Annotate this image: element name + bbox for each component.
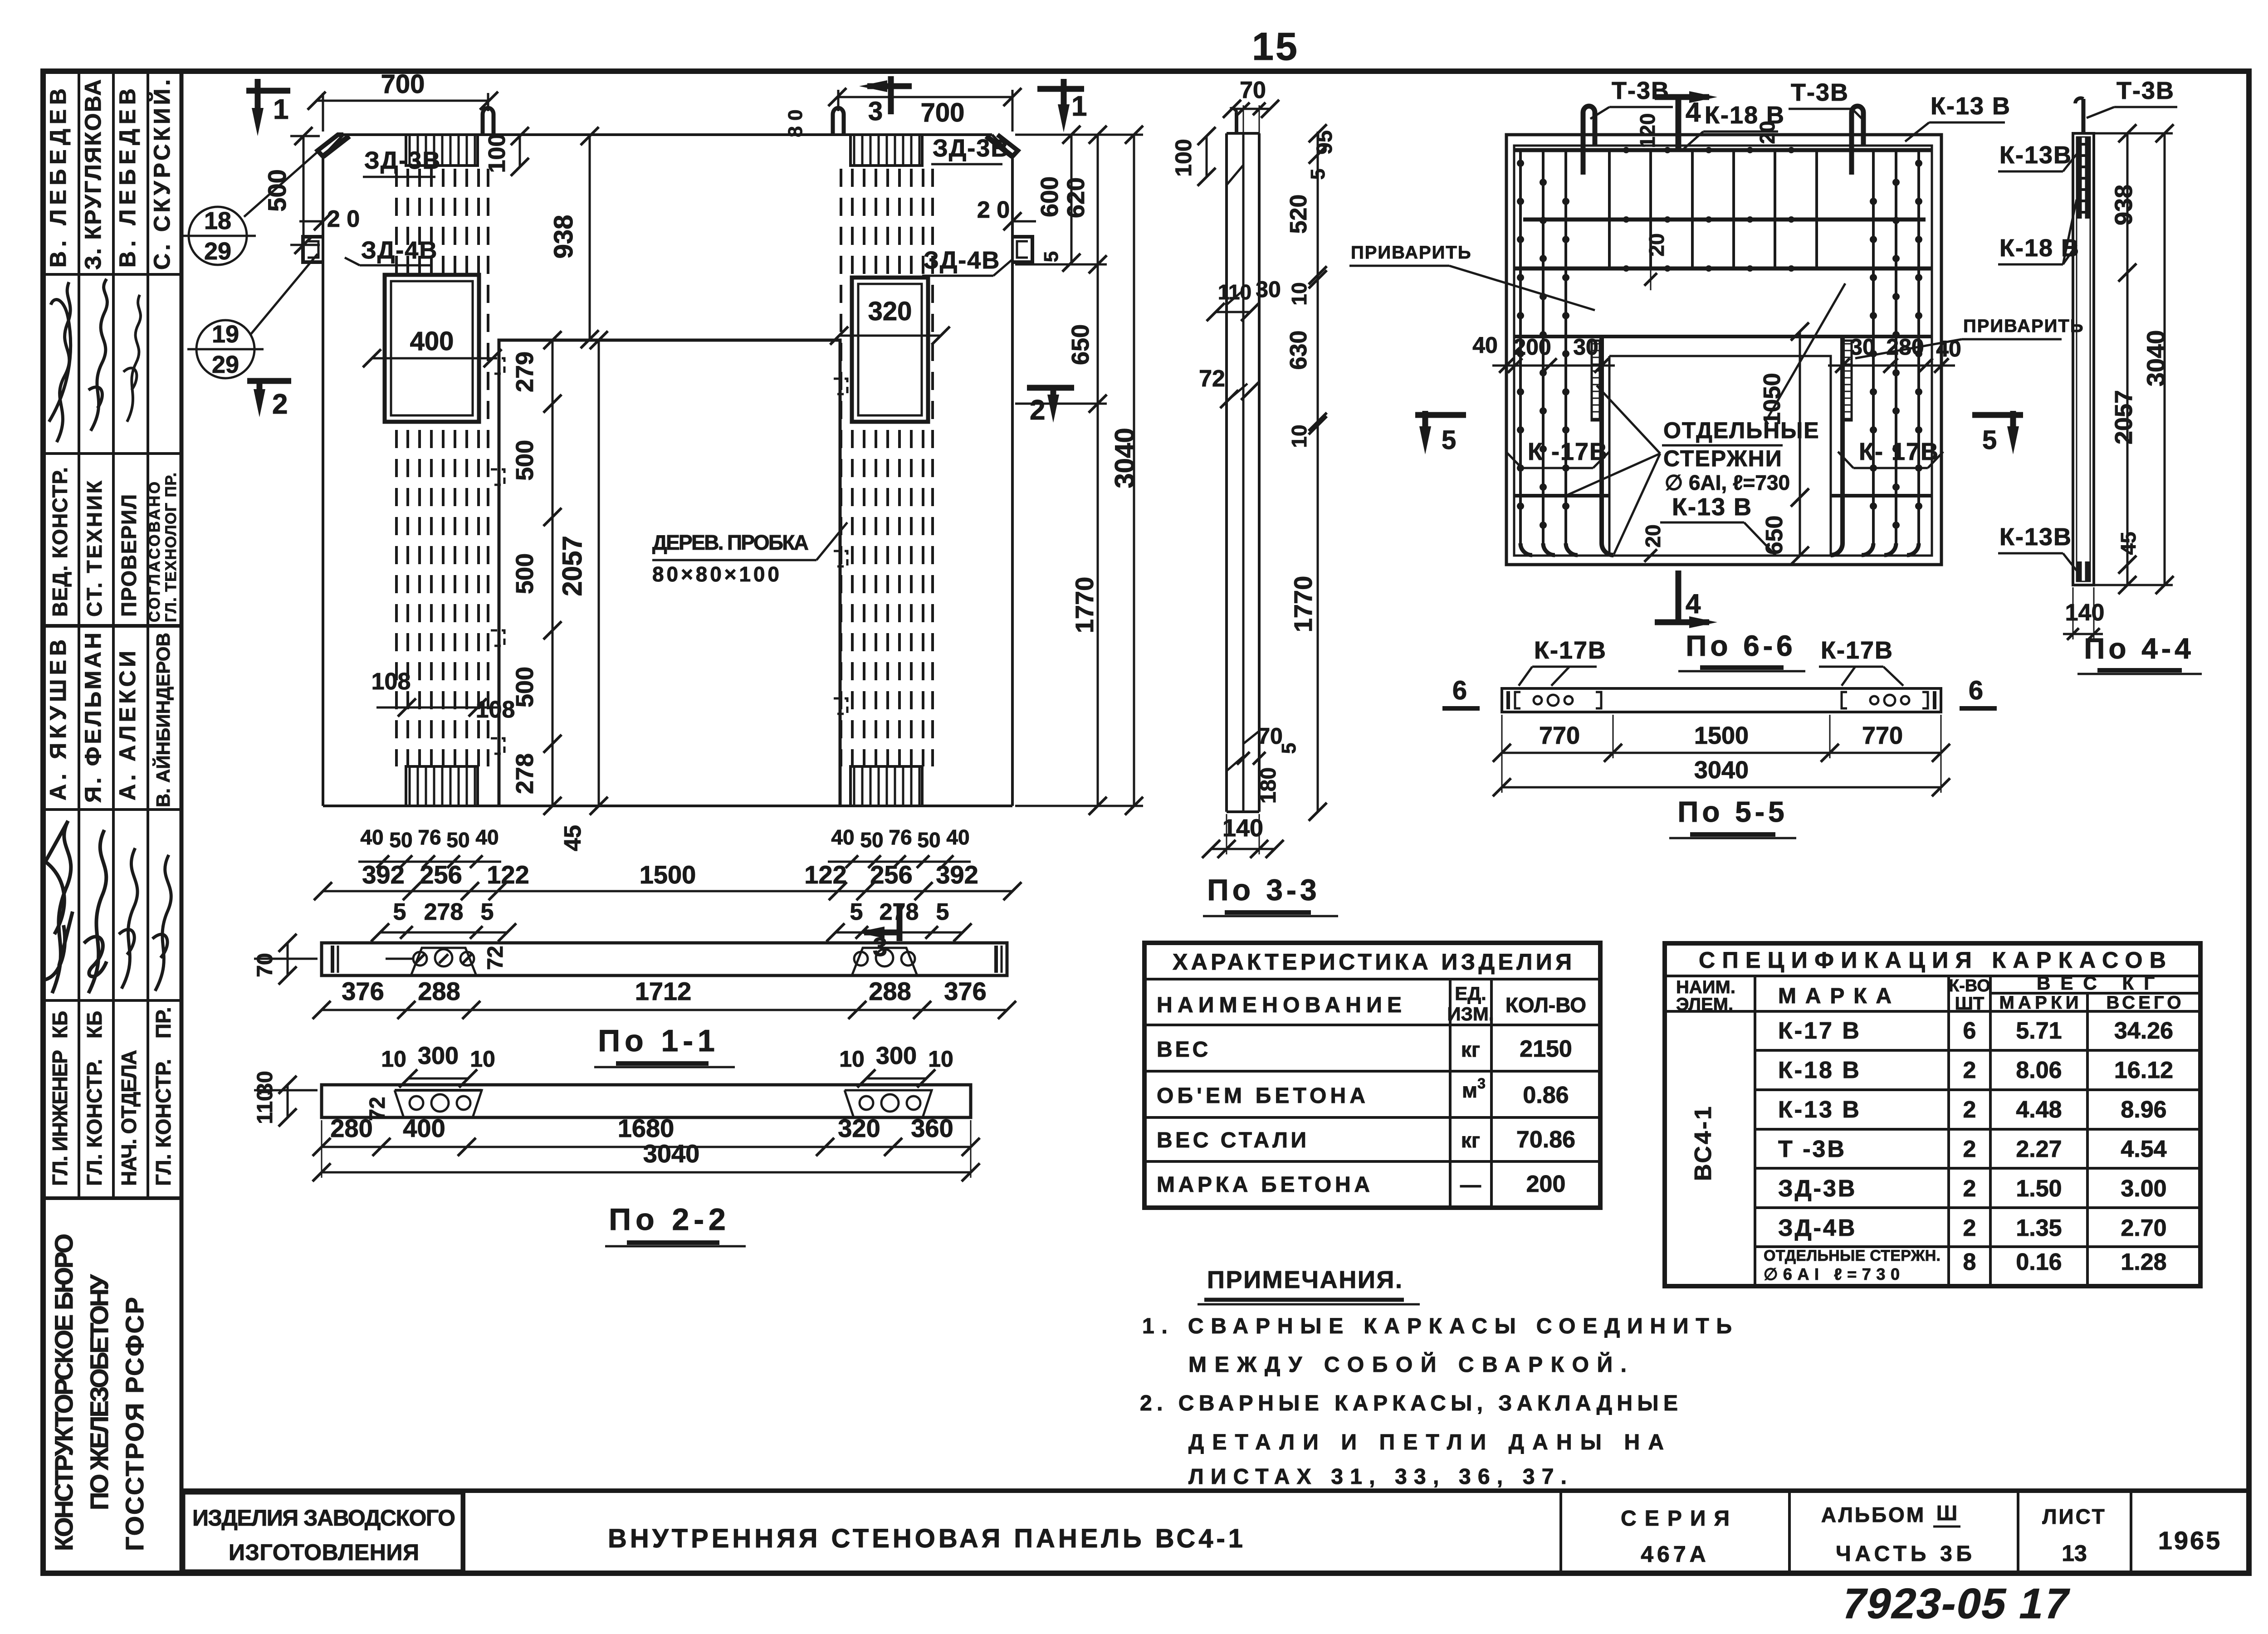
signature scribble 3 <box>123 295 141 422</box>
svg-text:10: 10 <box>381 1046 406 1072</box>
svg-text:29: 29 <box>204 238 231 265</box>
dim chain 620 650 1770 <box>1089 126 1107 815</box>
svg-text:ПО ЖЕЛЕЗОБЕТОНУ: ПО ЖЕЛЕЗОБЕТОНУ <box>85 1274 113 1510</box>
svg-text:18: 18 <box>204 207 231 234</box>
svg-text:180: 180 <box>1256 767 1281 804</box>
title block grid <box>43 71 181 1573</box>
svg-text:—: — <box>1460 1173 1481 1196</box>
embedded detail ZD-4V right edge <box>1012 237 1032 262</box>
svg-text:72: 72 <box>484 946 508 970</box>
svg-text:8.96: 8.96 <box>2121 1097 2166 1123</box>
svg-text:Т-3В: Т-3В <box>1791 79 1849 106</box>
svg-text:ЗД-3В: ЗД-3В <box>364 147 441 174</box>
svg-text:30: 30 <box>253 1071 277 1095</box>
svg-text:По 3-3: По 3-3 <box>1207 873 1320 907</box>
section mark 3 bottom <box>897 905 903 941</box>
section 1-1 right insert with holes <box>852 948 917 976</box>
svg-text:2: 2 <box>1963 1057 1976 1083</box>
section 3-3 right dim chain <box>1309 124 1327 821</box>
weld strip right <box>1843 341 1852 420</box>
svg-text:К- 17В: К- 17В <box>1859 438 1939 465</box>
svg-text:700: 700 <box>921 98 965 127</box>
svg-text:2 0: 2 0 <box>327 206 360 232</box>
left pilaster top comb <box>406 135 478 166</box>
svg-text:В. ЛЕБЕДЕВ: В. ЛЕБЕДЕВ <box>115 88 140 268</box>
svg-text:ЗД-4В: ЗД-4В <box>1778 1215 1857 1241</box>
svg-text:770: 770 <box>1539 722 1580 749</box>
svg-text:2.70: 2.70 <box>2121 1215 2166 1241</box>
svg-text:256: 256 <box>870 860 912 889</box>
svg-text:КБ: КБ <box>48 1011 72 1039</box>
svg-text:3040: 3040 <box>2141 330 2170 387</box>
svg-text:1.28: 1.28 <box>2121 1249 2166 1275</box>
svg-text:0.86: 0.86 <box>1523 1082 1569 1108</box>
svg-text:50: 50 <box>446 828 469 852</box>
svg-text:392: 392 <box>362 860 404 889</box>
svg-text:ПР.: ПР. <box>152 1007 175 1039</box>
panel elevation outline <box>323 135 1012 806</box>
svg-text:По 4-4: По 4-4 <box>2084 632 2194 665</box>
dim chain 938 2057 45 <box>2118 124 2136 594</box>
svg-text:По 6-6: По 6-6 <box>1686 629 1796 662</box>
svg-text:кг: кг <box>1461 1038 1480 1061</box>
svg-text:МЕЖДУ СОБОЙ СВАРКОЙ.: МЕЖДУ СОБОЙ СВАРКОЙ. <box>1188 1352 1627 1377</box>
svg-text:ЗД-3В: ЗД-3В <box>1778 1176 1857 1202</box>
svg-text:ГЛ. КОНСТР.: ГЛ. КОНСТР. <box>152 1059 175 1186</box>
right opening 320 <box>852 278 928 422</box>
section mark 4 bottom <box>1676 571 1681 623</box>
otdelnye sterzhni leaders <box>1597 385 1660 454</box>
svg-text:40: 40 <box>1472 332 1498 358</box>
section mark 1 top-right <box>1037 86 1084 92</box>
svg-text:6: 6 <box>1969 676 1983 705</box>
section 5-5 bar outline <box>1502 688 1941 712</box>
svg-text:10: 10 <box>1287 282 1311 305</box>
svg-text:3: 3 <box>868 97 883 126</box>
svg-text:34.26: 34.26 <box>2114 1018 2173 1044</box>
svg-text:ПРИМЕЧАНИЯ.: ПРИМЕЧАНИЯ. <box>1207 1266 1402 1293</box>
svg-text:К-13 В: К-13 В <box>1778 1097 1861 1123</box>
svg-text:376: 376 <box>342 977 384 1005</box>
svg-text:6: 6 <box>1452 676 1467 705</box>
svg-text:40: 40 <box>1936 336 1961 361</box>
svg-text:280: 280 <box>330 1114 372 1142</box>
svg-text:4: 4 <box>1686 589 1701 619</box>
svg-text:4.48: 4.48 <box>2016 1097 2062 1123</box>
embedded detail ZD-3V top-right corner <box>986 136 1012 156</box>
svg-text:5: 5 <box>936 899 949 925</box>
svg-text:5: 5 <box>850 899 863 925</box>
svg-text:2057: 2057 <box>557 536 587 596</box>
svg-text:НАЧ. ОТДЕЛА: НАЧ. ОТДЕЛА <box>117 1050 141 1186</box>
svg-text:1770: 1770 <box>1070 577 1099 634</box>
svg-text:938: 938 <box>549 215 578 259</box>
section 4-4 bottom cage fill <box>2077 561 2082 581</box>
svg-text:120: 120 <box>1636 113 1659 148</box>
svg-text:Т-3В: Т-3В <box>2116 77 2175 104</box>
svg-text:600: 600 <box>1036 176 1063 217</box>
cage 6-6 opening edge bars K-13B <box>1599 337 1604 543</box>
svg-text:100: 100 <box>1171 139 1196 176</box>
svg-text:СОГЛАСОВАНО: СОГЛАСОВАНО <box>146 482 163 622</box>
svg-text:К-17В: К-17В <box>1821 637 1893 664</box>
svg-text:ЗД-4В: ЗД-4В <box>924 247 1000 274</box>
svg-text:45: 45 <box>2116 532 2140 555</box>
svg-text:В. АЙНБИНДЕРОВ: В. АЙНБИНДЕРОВ <box>152 633 174 807</box>
section 5-5 right cage end <box>1842 691 1935 709</box>
dim 320 <box>839 335 941 337</box>
svg-text:650: 650 <box>1067 324 1094 365</box>
svg-text:320: 320 <box>838 1114 880 1142</box>
svg-text:200: 200 <box>1513 334 1551 360</box>
svg-text:100: 100 <box>484 134 510 173</box>
svg-text:45: 45 <box>560 825 586 851</box>
svg-text:3040: 3040 <box>643 1139 700 1168</box>
svg-text:122: 122 <box>804 860 846 889</box>
svg-text:76: 76 <box>889 825 912 849</box>
svg-text:ВЕД. КОНСТР.: ВЕД. КОНСТР. <box>48 467 72 617</box>
svg-text:288: 288 <box>418 977 460 1005</box>
svg-text:1.35: 1.35 <box>2016 1215 2062 1241</box>
left lifting loop <box>483 108 494 135</box>
svg-text:10: 10 <box>928 1046 953 1072</box>
svg-text:1: 1 <box>1071 91 1087 122</box>
svg-text:0.16: 0.16 <box>2016 1249 2062 1275</box>
svg-text:30: 30 <box>1573 334 1598 360</box>
svg-text:ПРИВАРИТЬ: ПРИВАРИТЬ <box>1351 243 1472 263</box>
svg-text:500: 500 <box>511 440 538 481</box>
section mark 3 top <box>867 83 912 89</box>
section mark 5 right <box>1972 412 2023 418</box>
svg-text:40: 40 <box>360 825 383 849</box>
svg-text:80×80×100: 80×80×100 <box>652 562 779 586</box>
cage 6-6 K-18B top band bars <box>1514 148 1932 152</box>
svg-text:ЧАСТЬ 3Б: ЧАСТЬ 3Б <box>1836 1542 1972 1566</box>
left pilaster bottom comb <box>406 766 478 806</box>
svg-text:2.27: 2.27 <box>2016 1136 2062 1162</box>
svg-text:19: 19 <box>212 321 239 348</box>
svg-text:м: м <box>1462 1078 1477 1102</box>
svg-text:1770: 1770 <box>1289 576 1317 633</box>
svg-text:400: 400 <box>403 1114 445 1142</box>
svg-text:К-ВО: К-ВО <box>1949 976 1990 995</box>
svg-text:ЛИСТ: ЛИСТ <box>2042 1505 2107 1528</box>
dim 400 <box>372 357 493 360</box>
svg-text:К-18 В: К-18 В <box>1778 1057 1861 1083</box>
svg-text:70: 70 <box>1240 77 1266 103</box>
svg-text:ШТ: ШТ <box>1955 994 1984 1014</box>
svg-text:50: 50 <box>917 828 940 852</box>
svg-text:5: 5 <box>1982 425 1997 455</box>
svg-text:2: 2 <box>272 389 288 420</box>
section mark 2 left <box>247 378 291 384</box>
svg-text:2150: 2150 <box>1520 1036 1572 1062</box>
svg-text:2 0: 2 0 <box>977 197 1010 223</box>
svg-text:13: 13 <box>2062 1541 2087 1566</box>
cage 6-6 mid horizontal bars <box>1514 335 1932 338</box>
svg-text:1965: 1965 <box>2158 1526 2222 1555</box>
svg-text:СТ. ТЕХНИК: СТ. ТЕХНИК <box>83 480 106 617</box>
svg-text:8: 8 <box>1963 1249 1976 1275</box>
svg-text:5.71: 5.71 <box>2016 1018 2062 1044</box>
svg-text:3040: 3040 <box>1110 428 1140 488</box>
wooden plug marks on recess edges <box>491 358 847 754</box>
section mark 4 top <box>1655 94 1709 100</box>
svg-text:50: 50 <box>389 828 412 852</box>
cage rebar dots <box>1517 147 1922 529</box>
svg-text:10: 10 <box>470 1046 495 1072</box>
svg-text:По 1-1: По 1-1 <box>598 1024 719 1058</box>
cell izdeliya zavodskogo izgotovleniya <box>184 1493 462 1571</box>
svg-text:5: 5 <box>481 899 494 925</box>
svg-text:По 5-5: По 5-5 <box>1677 795 1788 828</box>
svg-text:КОЛ-ВО: КОЛ-ВО <box>1505 993 1586 1017</box>
svg-text:К-13 В: К-13 В <box>1931 93 2011 120</box>
svg-text:ИЗМ.: ИЗМ. <box>1447 1003 1494 1024</box>
svg-text:ОБ'ЕМ БЕТОНА: ОБ'ЕМ БЕТОНА <box>1157 1084 1365 1108</box>
svg-text:8 0: 8 0 <box>784 109 807 137</box>
svg-text:ВС4-1: ВС4-1 <box>1690 1105 1716 1181</box>
section mark 1 top-left <box>246 88 290 94</box>
signature scribble 1 <box>49 282 71 442</box>
svg-text:140: 140 <box>2065 600 2105 626</box>
svg-text:5: 5 <box>1040 251 1062 262</box>
svg-text:1500: 1500 <box>640 860 696 889</box>
svg-text:ОТДЕЛЬНЫЕ СТЕРЖН.: ОТДЕЛЬНЫЕ СТЕРЖН. <box>1764 1247 1941 1264</box>
cage 6-6 band rungs <box>1609 150 1817 268</box>
svg-text:Т-3В: Т-3В <box>1612 77 1670 104</box>
svg-text:1680: 1680 <box>618 1114 675 1142</box>
specification table <box>1665 943 2200 1286</box>
svg-text:300: 300 <box>876 1042 917 1069</box>
detail bubble 18/29 <box>189 207 247 265</box>
svg-text:5: 5 <box>1278 743 1300 754</box>
svg-text:МАРКА БЕТОНА: МАРКА БЕТОНА <box>1157 1173 1370 1197</box>
svg-text:ВНУТРЕННЯЯ СТЕНОВАЯ ПАНЕЛЬ: ВНУТРЕННЯЯ СТЕНОВАЯ ПАНЕЛЬ ВС4-1 <box>608 1524 1243 1553</box>
svg-text:ПРОВЕРИЛ: ПРОВЕРИЛ <box>117 494 141 617</box>
svg-text:∅ 6АІ, ℓ=730: ∅ 6АІ, ℓ=730 <box>1665 471 1790 494</box>
section 1-1 left insert with holes <box>411 948 476 976</box>
svg-text:500: 500 <box>511 667 538 707</box>
bottom dim row 392 256 122 1500 122 256 392 <box>314 882 1022 900</box>
svg-text:3.00: 3.00 <box>2121 1176 2166 1202</box>
svg-text:ЭЛЕМ.: ЭЛЕМ. <box>1676 995 1733 1015</box>
svg-text:ВЕС СТАЛИ: ВЕС СТАЛИ <box>1157 1128 1306 1152</box>
svg-text:29: 29 <box>212 351 239 378</box>
svg-text:10: 10 <box>1287 424 1311 448</box>
elevation right extension lines <box>1015 134 1143 136</box>
svg-text:108: 108 <box>476 697 515 723</box>
svg-text:20: 20 <box>1641 524 1665 547</box>
svg-text:ЗД-3В: ЗД-3В <box>933 135 1009 162</box>
svg-text:К-13В: К-13В <box>1999 523 2072 551</box>
svg-text:4.54: 4.54 <box>2121 1136 2166 1162</box>
dim 3040 section 4-4 <box>2164 133 2166 585</box>
svg-text:Ш: Ш <box>1936 1501 1957 1525</box>
section 2-2 right insert with holes <box>845 1090 932 1117</box>
svg-text:КБ: КБ <box>83 1011 106 1039</box>
section 3-3 outline <box>1227 133 1259 812</box>
svg-text:650: 650 <box>1761 516 1788 555</box>
svg-text:95: 95 <box>1313 130 1337 154</box>
svg-text:72: 72 <box>1199 366 1225 392</box>
svg-text:8.06: 8.06 <box>2016 1057 2062 1083</box>
section 4-4 top cage fill <box>2077 137 2082 219</box>
detail bubble 19/29 <box>196 320 254 378</box>
svg-text:2: 2 <box>1963 1176 1976 1202</box>
svg-text:2: 2 <box>1030 395 1045 426</box>
svg-text:30: 30 <box>1850 334 1875 360</box>
right pilaster bottom comb <box>850 766 922 806</box>
svg-text:360: 360 <box>911 1114 953 1142</box>
svg-text:3: 3 <box>1477 1075 1486 1092</box>
svg-text:770: 770 <box>1862 722 1903 749</box>
T-3B loops on cage <box>1583 106 1595 175</box>
svg-text:40: 40 <box>475 825 499 849</box>
svg-text:30: 30 <box>1256 277 1281 302</box>
svg-text:122: 122 <box>487 860 529 889</box>
svg-text:320: 320 <box>868 297 912 326</box>
signature scribble 2 <box>88 279 107 431</box>
svg-text:1: 1 <box>273 94 288 125</box>
signature scribble 5 <box>84 830 107 993</box>
right pilaster top comb <box>850 135 922 166</box>
svg-text:278: 278 <box>511 753 538 794</box>
dim 700 top-left <box>322 93 324 132</box>
svg-text:520: 520 <box>1286 195 1312 234</box>
svg-text:630: 630 <box>1286 331 1312 370</box>
svg-text:279: 279 <box>511 351 538 392</box>
section 5-5 dim 3040 <box>1502 786 1941 789</box>
svg-text:70: 70 <box>253 953 277 977</box>
svg-text:140: 140 <box>1222 815 1263 842</box>
svg-text:К-17 В: К-17 В <box>1778 1018 1861 1044</box>
dim 700 top-right <box>1012 90 1014 132</box>
dim 600 <box>1070 135 1073 263</box>
weld strip left <box>1592 341 1600 420</box>
svg-text:ОТДЕЛЬНЫЕ: ОТДЕЛЬНЫЕ <box>1663 418 1820 443</box>
svg-text:ГЛ. КОНСТР.: ГЛ. КОНСТР. <box>83 1059 106 1186</box>
cage 6-6 right K-17B bars <box>1862 150 1919 555</box>
svg-text:620: 620 <box>1062 177 1090 218</box>
left pilaster hidden channel dashed lines <box>396 169 488 766</box>
svg-text:20: 20 <box>1645 233 1668 256</box>
svg-text:ДЕРЕВ. ПРОБКА: ДЕРЕВ. ПРОБКА <box>652 531 809 554</box>
inner recess outline <box>499 340 840 806</box>
section 4-4 outline <box>2073 133 2094 585</box>
svg-text:МАРКИ: МАРКИ <box>1999 993 2079 1013</box>
svg-text:К-13 В: К-13 В <box>1672 493 1752 521</box>
svg-text:ГЛ. ТЕХНОЛОГ ПР.: ГЛ. ТЕХНОЛОГ ПР. <box>162 473 180 622</box>
svg-text:ИЗДЕЛИЯ ЗАВОДСКОГО: ИЗДЕЛИЯ ЗАВОДСКОГО <box>192 1505 455 1531</box>
left opening 400 <box>385 275 479 422</box>
section mark 2 right <box>1027 385 1074 391</box>
svg-text:А. ЯКУШЕВ: А. ЯКУШЕВ <box>45 639 71 800</box>
svg-text:500: 500 <box>263 169 291 211</box>
svg-text:ГОССТРОЯ РСФСР: ГОССТРОЯ РСФСР <box>120 1297 149 1551</box>
right lifting loop <box>833 108 844 135</box>
svg-text:2: 2 <box>1963 1136 1976 1162</box>
svg-text:В. ЛЕБЕДЕВ: В. ЛЕБЕДЕВ <box>45 88 71 268</box>
svg-text:ПРИВАРИТЬ: ПРИВАРИТЬ <box>1963 316 2084 336</box>
svg-text:40: 40 <box>946 825 969 849</box>
section 4-4 loop <box>2082 99 2086 133</box>
svg-text:По 2-2: По 2-2 <box>609 1202 730 1237</box>
embedded detail ZD-3V top-left corner <box>318 135 343 156</box>
svg-text:Т -3В: Т -3В <box>1778 1136 1846 1162</box>
svg-text:288: 288 <box>869 977 911 1005</box>
svg-text:400: 400 <box>410 327 454 356</box>
svg-text:938: 938 <box>2110 185 2137 225</box>
svg-text:ВСЕГО: ВСЕГО <box>2107 993 2181 1013</box>
svg-text:300: 300 <box>418 1042 459 1069</box>
svg-text:70.86: 70.86 <box>1516 1127 1575 1153</box>
svg-text:К-13В: К-13В <box>1999 141 2072 169</box>
svg-text:КОНСТРУКТОРСКОЕ БЮРО: КОНСТРУКТОРСКОЕ БЮРО <box>49 1234 78 1551</box>
svg-text:ЕД.: ЕД. <box>1455 983 1486 1004</box>
svg-text:2: 2 <box>1963 1215 1976 1241</box>
svg-text:500: 500 <box>511 553 538 594</box>
signature scribble 4 <box>45 821 73 993</box>
svg-text:К-17В: К-17В <box>1534 637 1607 664</box>
svg-text:ГЛ. ИНЖЕНЕР: ГЛ. ИНЖЕНЕР <box>48 1050 72 1186</box>
svg-text:ЗД-4В: ЗД-4В <box>361 237 438 264</box>
svg-text:256: 256 <box>420 860 462 889</box>
section 2-2 left insert with holes <box>395 1090 482 1117</box>
dim 3040 below 2-2 <box>322 1171 971 1174</box>
bottom title bar grid <box>181 1491 2249 1573</box>
right pilaster hidden channel dashed lines <box>841 169 933 766</box>
svg-text:ВЕС: ВЕС <box>1157 1038 1211 1062</box>
svg-text:376: 376 <box>944 977 986 1005</box>
section 2-2 bar outline <box>322 1085 971 1117</box>
section 5-5 left cage end <box>1508 691 1601 709</box>
section 3-3 step notches <box>1227 290 1243 305</box>
characteristics table <box>1144 943 1600 1208</box>
svg-text:1712: 1712 <box>635 977 692 1005</box>
svg-text:50: 50 <box>860 828 883 852</box>
svg-text:10: 10 <box>839 1046 865 1072</box>
section 1-1 dims below <box>313 1001 1016 1019</box>
svg-text:СТЕРЖНИ: СТЕРЖНИ <box>1663 446 1783 471</box>
svg-text:392: 392 <box>936 860 978 889</box>
svg-text:А. АЛЕКСИ: А. АЛЕКСИ <box>115 651 140 800</box>
svg-text:110: 110 <box>1218 280 1251 304</box>
svg-text:16.12: 16.12 <box>2114 1057 2173 1083</box>
svg-text:108: 108 <box>371 668 411 695</box>
svg-text:К -17В: К -17В <box>1528 438 1608 465</box>
svg-text:15: 15 <box>1252 25 1299 68</box>
section 2-2 dims below <box>313 1138 980 1156</box>
embedded detail ZD-4V left edge <box>303 237 323 262</box>
svg-text:700: 700 <box>381 69 425 99</box>
svg-text:200: 200 <box>1526 1171 1566 1197</box>
svg-text:кг: кг <box>1461 1128 1480 1152</box>
svg-text:АЛЬБОМ: АЛЬБОМ <box>1821 1503 1926 1527</box>
svg-text:ДЕТАЛИ И ПЕТЛИ ДАНЫ НА: ДЕТАЛИ И ПЕТЛИ ДАНЫ НА <box>1188 1430 1664 1454</box>
dim 500 left <box>290 135 320 137</box>
svg-text:467А: 467А <box>1641 1541 1710 1567</box>
svg-text:3040: 3040 <box>1694 756 1749 784</box>
svg-text:5: 5 <box>1442 425 1456 455</box>
svg-text:5: 5 <box>1307 169 1329 180</box>
section 5-5 dims 770 1500 770 <box>1493 744 1950 762</box>
svg-text:1.50: 1.50 <box>2016 1176 2062 1202</box>
dim chain 279/500x3/278 <box>543 331 562 815</box>
svg-text:ИЗГОТОВЛЕНИЯ: ИЗГОТОВЛЕНИЯ <box>229 1540 419 1565</box>
section 3-3 loop stub <box>1235 112 1238 133</box>
section 3-3 top notch <box>1227 165 1243 185</box>
